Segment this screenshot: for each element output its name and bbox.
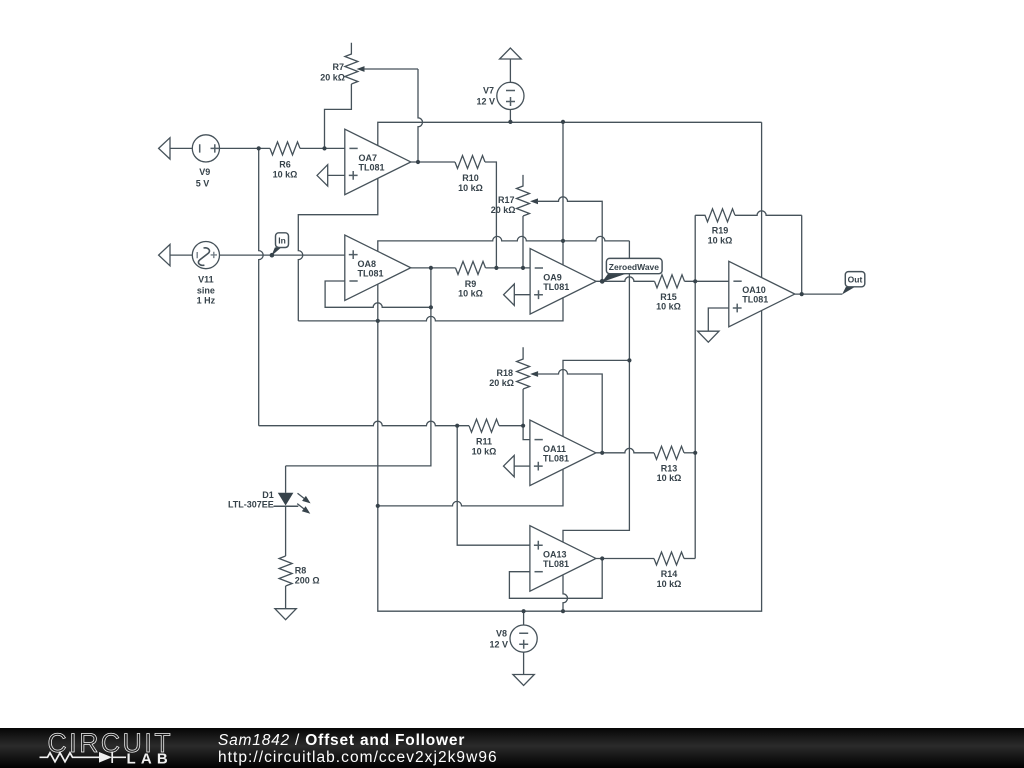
svg-text:http://circuitlab.com/ccev2xj2: http://circuitlab.com/ccev2xj2k9w96 [218,749,498,766]
svg-text:V11: V11 [198,274,214,284]
wire R11/R18 node elbow to OA11 inverting input [523,426,530,440]
svg-text:12 V: 12 V [476,97,495,107]
wire R14 to summing node vertical [684,558,695,560]
ground at OA10 non-inverting input [698,308,729,342]
node: +12V distribution at OA9 V+ [561,239,565,243]
ground below V8 [513,675,534,686]
wire OA11 output to R13 (hops +12V drop) [596,448,654,453]
svg-text:TL081: TL081 [742,295,768,305]
svg-text:R13: R13 [661,464,678,474]
svg-text:20 kΩ: 20 kΩ [491,205,516,215]
+12V wire down right side to OA13 V+ (hops OA9 output wire, hops R13 lead) [563,241,629,542]
wire R11 to R18 node [499,425,523,427]
svg-text:OA11: OA11 [543,444,566,454]
op-amp OA11 TL081 [530,420,596,486]
op-amp OA9 TL081 [530,249,596,315]
-12V branch to OA11 V- stub (hops OA13 + input drop) [378,469,563,506]
wire OA10 output to Out flag [795,293,843,295]
node flag In [270,233,289,258]
wire R7 wiper down to OA7 output (hops +12V rail) [418,69,423,162]
node: +12V rail drop [561,120,565,124]
voltage source V7 12V [476,82,524,109]
node: -12V branch to OA11 V- [376,504,380,508]
resistor R13 10k [654,446,684,483]
wire R15 to OA10 inverting input [685,280,729,282]
svg-text:10 kΩ: 10 kΩ [657,473,682,483]
svg-text:TL081: TL081 [543,559,569,569]
potentiometer R7 20k [320,43,418,84]
svg-text:OA13: OA13 [543,550,567,560]
+12V branch to OA11 V+ (hops R18 wiper) [563,360,629,436]
power V- stub OA7, route left and down [298,178,378,321]
node: OA7 output/R7 wiper [416,160,420,164]
wire OA9 output to R15 [596,277,654,282]
svg-text:TL081: TL081 [358,269,384,279]
svg-text:R18: R18 [496,368,513,378]
op-amp OA13 TL081 [530,526,596,592]
node: R11 left / OA13 + feed [455,424,459,428]
svg-text:R10: R10 [462,173,479,183]
resistor R8 200 ohm [279,556,319,586]
wire R17 bottom lead down to OA9 inverting input node [522,216,524,268]
potentiometer R17 20k [491,175,602,281]
voltage source V11 sine 1Hz [192,242,219,306]
svg-text:OA8: OA8 [358,259,377,269]
resistor R15 10k [655,275,685,312]
svg-text:OA9: OA9 [543,273,562,283]
svg-text:R15: R15 [660,292,677,302]
svg-text:OA7: OA7 [359,153,378,163]
svg-text:R17: R17 [498,195,515,205]
wire OA8 feedback: inverting input loop to output node [325,281,431,307]
node: OA8 V- stub on -12V wire [376,319,380,323]
power V+ stub OA9 from rail drop (hops R17 wiper) [562,122,564,265]
potentiometer R18 20k [489,347,602,453]
voltage source V8 12V [489,611,537,652]
power V+ stub OA8 and +12V distribution wire to the lower stages (hops R10 drop, R17 lead, OA9 output drop) [378,236,630,251]
wire OA13 feedback: inverting input loop to output node (hops OA13 V- stub, bump down) [509,559,602,599]
node: R10 drop on R9 wire [494,266,498,270]
svg-text:R14: R14 [661,569,678,579]
wire R19 right lead down to OA10 output node [801,215,803,294]
wire R6 to OA7 inverting input [300,147,345,149]
resistor R6 10k [270,142,300,180]
svg-text:R19: R19 [712,226,729,236]
wire V11 to OA8 non-inverting input (In node) [220,254,345,256]
node: OA11 output/R18 wiper [600,451,604,455]
resistor R11 10k [469,419,499,456]
LED D1 LTL-307EE [228,466,311,514]
svg-text:1 Hz: 1 Hz [197,295,216,305]
node: OA9 output / ZeroedWave [600,279,605,284]
wire V9 to R6 [220,147,271,149]
resistor R9 10k [456,261,486,298]
op-amp OA10 TL081 [729,261,795,327]
wire V9 node row to R11 (hops -12V trunk, hops OA8 output drop) [259,421,469,426]
svg-text:V8: V8 [496,629,507,639]
svg-text:10 kΩ: 10 kΩ [458,183,483,193]
wire R10 right, down to R9/OA9 inverting row [485,162,496,268]
svg-text:D1: D1 [262,490,274,500]
svg-text:5 V: 5 V [196,178,210,188]
svg-text:V9: V9 [199,167,210,177]
svg-text:ZeroedWave: ZeroedWave [609,262,660,272]
svg-text:200 Ω: 200 Ω [295,575,320,585]
node: OA10 output/R19 [800,292,804,296]
wire R6 right node up to R7 bottom [325,84,352,148]
svg-text:TL081: TL081 [543,454,569,464]
svg-text:OA10: OA10 [742,285,766,295]
node: R11/R18/OA11 inverting [521,424,525,428]
op-amp OA8 TL081 [345,235,411,301]
wire OA13 + input feed: from R11 left node down and right (no connection at -12V branch) [457,426,530,546]
wire V8 to ground [523,652,525,674]
wire V7 plus terminal to +12V rail [509,110,511,123]
node: R13 at summing vertical [693,451,697,455]
svg-text:12 V: 12 V [489,640,508,650]
svg-text:V7: V7 [483,86,494,96]
footer banner [0,728,1024,768]
node: V8 on -12V rail [522,609,526,613]
op-amp OA7 TL081 [345,129,411,195]
svg-text:R11: R11 [476,437,492,447]
svg-text:TL081: TL081 [543,282,569,292]
wire OA7 output to R10 [411,161,455,163]
svg-text:10 kΩ: 10 kΩ [273,170,298,180]
node: V9/R6/R11 branch [257,146,261,150]
ground (up arrow) above V7 [500,48,522,82]
svg-text:LTL-307EE: LTL-307EE [228,500,274,510]
wire R19 left lead down: summing node vertical through OA10- , R13, to R14 [694,215,696,558]
node: R15/R19/OA10 inverting input [693,279,697,283]
ground below R8 [275,609,296,620]
svg-text:R7: R7 [332,62,344,72]
-12V wire along y=320.9 to OA9 V- stub (hops OA8 output drop) [298,297,563,321]
voltage source V9 5V DC [192,135,219,189]
node: OA8 feedback at output drop [429,305,433,309]
svg-text:R6: R6 [279,160,291,170]
node flag Out [842,272,865,295]
-12V trunk down the middle to bottom rail [378,310,762,611]
node: OA13 output/feedback [600,556,604,560]
svg-text:sine: sine [197,285,215,295]
node: OA8 output/R9 [429,266,433,270]
resistor R10 10k [455,156,485,193]
node: R17 bottom on OA9 inverting input [521,266,525,270]
node: +12V branch split [627,358,631,362]
ground at OA9 non-inverting input [504,284,530,305]
wire junction under R6 left: V9 node drop to R11 row (hops over In wire) [259,148,264,425]
ground at OA7 non-inverting input [317,165,345,186]
svg-text:TL081: TL081 [359,163,385,173]
node: V7 on +12V rail [508,120,512,124]
wire R8 to ground [285,586,287,609]
svg-text:20 kΩ: 20 kΩ [489,378,514,388]
wire OA8 output node drop: down to D1 row, left to D1 anode [286,268,431,466]
ground at V9 left [159,138,193,159]
svg-text:20 kΩ: 20 kΩ [320,73,345,83]
svg-text:10 kΩ: 10 kΩ [472,446,497,456]
svg-text:10 kΩ: 10 kΩ [458,289,483,299]
wire R18 bottom lead to R11 node [522,389,524,426]
wire OA8 output to R9 [411,267,456,269]
svg-text:In: In [278,236,286,246]
node: R6/R7 bottom [322,146,326,150]
svg-text:10 kΩ: 10 kΩ [657,579,682,589]
wire R13 to summing node [684,452,695,454]
svg-text:10 kΩ: 10 kΩ [708,236,733,246]
power V- stub OA13 [563,575,568,611]
ground at V11 left [159,244,193,265]
svg-text:Out: Out [848,275,863,285]
node: OA13 V- stub on -12V rail [561,609,565,613]
wire D1 cathode to R8 [285,506,287,556]
resistor R19 10k feedback [695,209,802,246]
+12V rail drop to OA10 V+ [761,122,763,277]
svg-text:R8: R8 [295,565,307,575]
svg-text:Sam1842 / Offset and Follower: Sam1842 / Offset and Follower [218,732,465,749]
svg-text:10 kΩ: 10 kΩ [656,302,681,312]
svg-text:LAB: LAB [127,750,173,767]
resistor R14 10k [654,552,684,589]
wire R9 to OA9 inverting input [486,267,531,269]
wire OA13 output to R14 [596,558,654,560]
ground at OA11 non-inverting input [504,455,530,476]
svg-text:R9: R9 [465,279,477,289]
node flag ZeroedWave [602,258,662,282]
CircuitLab logo resistor-diode glyph and LAB [40,753,100,762]
power V+ stub OA7 and +12V rail to right [378,122,762,145]
power V- stub OA8 [377,284,379,321]
